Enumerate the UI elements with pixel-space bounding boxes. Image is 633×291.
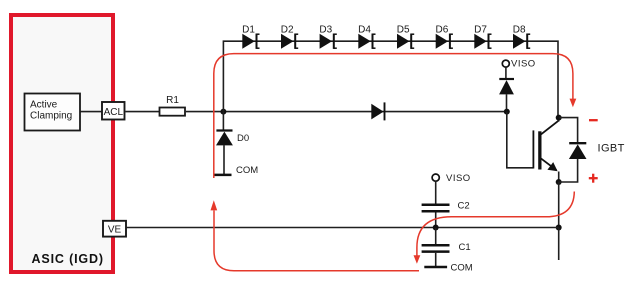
terminal VISO (upper, gate clamp supply) [502,59,535,70]
diode D4 (zener, series clamp chain) [358,25,375,49]
pin VE [103,221,126,237]
terminal VISO (lower, at C2) [432,173,471,184]
svg-text:R1: R1 [166,95,179,106]
svg-text:D4: D4 [358,25,371,36]
svg-text:Clamping: Clamping [30,111,72,122]
node IGBT collector [556,115,562,121]
svg-text:VISO: VISO [446,173,471,184]
svg-text:ASIC (IGD): ASIC (IGD) [32,252,104,266]
wire R1 to gate junction (main ACL rail) [186,111,507,113]
svg-text:IGBT: IGBT [598,143,625,155]
svg-text:Active: Active [30,100,58,111]
zener diode at VISO (pointing up) [499,79,514,94]
node IGBT emitter [556,179,562,185]
Active Clamping block [25,94,81,131]
svg-text:COM: COM [451,263,473,274]
svg-text:D0: D0 [237,133,249,144]
svg-text:C1: C1 [459,242,471,253]
svg-text:D2: D2 [281,25,294,36]
wire node up to diode chain [223,41,558,117]
diode freewheel (antiparallel across IGBT, pointing up) [569,143,587,159]
resistor R1 [160,95,186,116]
diode D2 (zener, series clamp chain) [281,25,298,49]
ground COM (under D0) [214,165,258,176]
diode D1 (zener, series clamp chain) [242,25,259,49]
capacitor C2 [422,200,470,211]
node at D0 / chain tap [220,109,226,115]
diode D5 (zener, series clamp chain) [397,25,414,49]
node C2/C1 on VE rail [433,225,439,231]
ground COM (under C1) [424,263,472,274]
wire node down to D0 [222,112,224,131]
red current path: bottom return left and up toward ACL/D0 [211,200,420,271]
wire VISO terminal to C2 [435,181,437,203]
wire C2 to VE rail [435,212,437,227]
svg-text:VE: VE [108,225,122,236]
capacitor C1 [422,242,471,253]
svg-text:ACL: ACL [104,107,124,118]
svg-text:VISO: VISO [511,59,536,70]
wire C1 to COM [435,253,437,266]
svg-text:D6: D6 [436,25,449,36]
red current path: D0/COM up over diode chain to IGBT collector [214,54,577,178]
diode D6 (zener, series clamp chain) [436,25,453,49]
wire VE rail [127,227,559,229]
red current path: IGBT emitter + down to C1/COM [414,192,575,264]
wire VE rail to C1 [435,228,437,245]
wire D0 to COM [223,145,225,175]
diode D8 (zener, series clamp chain) [513,25,530,49]
wire emitter down to VE rail [558,182,560,228]
wire collector to freewheel diode branch [559,118,578,143]
wire gate junction to IGBT gate [507,112,534,168]
svg-text:D8: D8 [513,25,526,36]
ASIC (IGD) red outline box [11,15,113,272]
diode D7 (zener, series clamp chain) [474,25,491,49]
svg-text:C2: C2 [458,200,470,211]
svg-text:COM: COM [236,165,258,176]
wire Active Clamping to ACL pin [81,111,103,113]
node emitter / VE rail junction [556,225,562,231]
wire freewheel diode to emitter node [559,159,578,182]
transistor IGBT (symbol) [533,116,559,182]
diode D0 (clamp to COM, pointing up) [216,131,249,146]
svg-text:D7: D7 [474,25,487,36]
wire ACL to R1 [126,111,160,113]
svg-text:D5: D5 [397,25,410,36]
label plus (emitter DC bus) [589,174,598,183]
diode D3 (zener, series clamp chain) [319,25,336,49]
pin ACL [102,102,125,120]
wire zener to gate junction [506,94,508,111]
diode D9 (series blocking diode on ACL rail) [371,102,384,120]
label minus (collector DC bus) [589,119,598,121]
svg-text:D1: D1 [242,25,255,36]
wire emitter stub to bottom [558,228,560,261]
svg-text:D3: D3 [319,25,332,36]
node gate junction [504,109,510,115]
wire VISO terminal to zener [505,67,507,78]
